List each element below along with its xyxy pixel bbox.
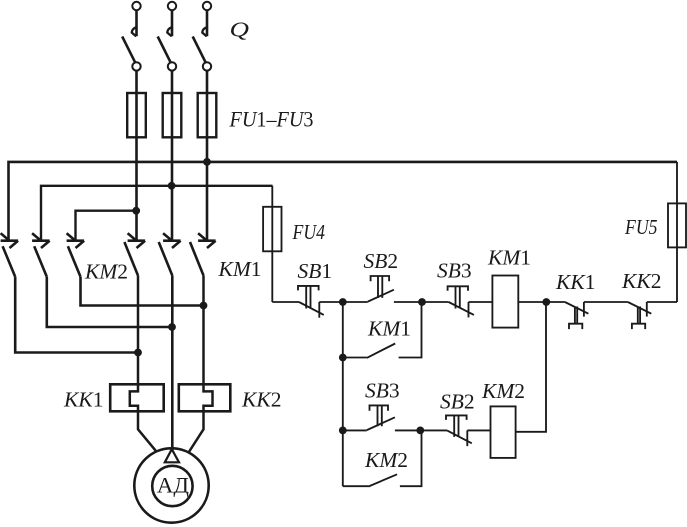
svg-text:SB3: SB3: [437, 259, 472, 283]
svg-text:FU1–FU3: FU1–FU3: [229, 107, 314, 132]
svg-text:SB2: SB2: [440, 390, 475, 414]
svg-text:SB1: SB1: [298, 259, 333, 283]
svg-text:KK1: KK1: [63, 388, 103, 412]
svg-text:FU4: FU4: [292, 220, 326, 244]
svg-text:KK1: KK1: [555, 270, 595, 294]
svg-text:KM1: KM1: [218, 257, 262, 281]
svg-text:KM1: KM1: [487, 246, 531, 270]
svg-text:KM2: KM2: [84, 260, 128, 284]
svg-text:KK2: KK2: [241, 388, 281, 412]
svg-text:АД: АД: [157, 472, 189, 497]
svg-text:SB3: SB3: [365, 379, 400, 403]
svg-text:KM2: KM2: [481, 379, 525, 403]
svg-text:KM2: KM2: [364, 448, 408, 472]
svg-text:Q: Q: [230, 18, 250, 42]
svg-text:KM1: KM1: [367, 316, 411, 340]
svg-text:KK2: KK2: [621, 269, 661, 293]
svg-text:SB2: SB2: [364, 249, 399, 273]
svg-text:FU5: FU5: [624, 215, 658, 239]
